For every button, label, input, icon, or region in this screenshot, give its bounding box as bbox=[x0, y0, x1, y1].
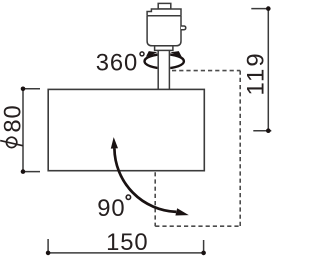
90deg swing arc bbox=[114, 148, 176, 212]
stem bbox=[157, 50, 170, 89]
phi symbol bbox=[6, 137, 16, 147]
rotation ellipse 360deg bbox=[145, 54, 184, 68]
svg-text:90: 90 bbox=[97, 195, 125, 222]
svg-text:360: 360 bbox=[96, 49, 138, 76]
svg-text:150: 150 bbox=[106, 229, 148, 256]
dashed rotated-position outline bbox=[155, 71, 240, 227]
dimension phi80 (left) bbox=[23, 89, 40, 172]
track adapter bbox=[147, 3, 186, 50]
ellipse arrowheads bbox=[146, 51, 157, 57]
dimension 119 (right) bbox=[251, 9, 271, 131]
dimension 150 (bottom) bbox=[48, 239, 204, 255]
svg-text:80: 80 bbox=[0, 104, 27, 132]
lamp body bbox=[48, 89, 204, 170]
svg-text:119: 119 bbox=[242, 51, 269, 95]
